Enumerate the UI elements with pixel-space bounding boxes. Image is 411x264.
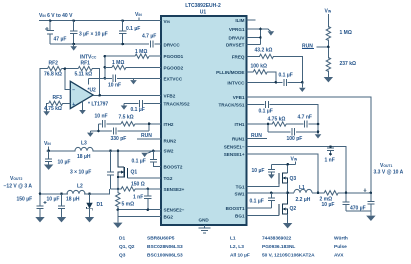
wire SW2 rail xyxy=(47,150,162,152)
svg-text:DRVSET: DRVSET xyxy=(226,43,245,48)
IC U1 LTC3892EUH-2 body xyxy=(161,16,247,225)
capacitor 3x10uF input xyxy=(70,21,77,44)
svg-text:1 MΩ: 1 MΩ xyxy=(135,49,147,55)
svg-text:L1: L1 xyxy=(299,185,305,191)
svg-text:VPRG1: VPRG1 xyxy=(229,27,245,32)
capacitor 0.1uF TRACK/SS2 xyxy=(121,100,161,110)
svg-text:Q1, Q2: Q1, Q2 xyxy=(119,244,135,250)
svg-text:1 nF: 1 nF xyxy=(133,195,143,201)
svg-text:L1: L1 xyxy=(230,236,236,242)
transistor Q2 xyxy=(279,193,288,216)
svg-text:BOOST1: BOOST1 xyxy=(226,206,245,211)
svg-text:10 µF: 10 µF xyxy=(322,202,335,208)
svg-text:0.1 µF: 0.1 µF xyxy=(259,108,273,114)
wire BG2 to ground xyxy=(118,210,161,223)
ground VPRG1 (diagonal) xyxy=(268,29,275,36)
wire VOUT2 rail xyxy=(40,189,110,194)
svg-text:Q3: Q3 xyxy=(119,253,126,259)
capacitor 4.7uF DRVCC xyxy=(151,40,154,47)
svg-text:10 nF: 10 nF xyxy=(95,113,108,119)
wire Q3 source xyxy=(287,183,289,193)
svg-text:RUN2: RUN2 xyxy=(164,138,177,143)
capacitor 0.1uF INTVCC xyxy=(284,79,287,86)
svg-text:150 Ω: 150 Ω xyxy=(131,181,145,187)
svg-text:237 kΩ: 237 kΩ xyxy=(340,61,357,67)
svg-text:AVX: AVX xyxy=(334,253,344,259)
wire SENSE1+ line xyxy=(247,154,319,193)
ground SW2 node (diagonal) xyxy=(141,151,153,157)
svg-text:DRVCC: DRVCC xyxy=(164,42,181,47)
svg-text:Würth: Würth xyxy=(334,236,348,242)
svg-text:1 MΩ: 1 MΩ xyxy=(340,30,352,36)
wire SENSE1- line xyxy=(247,147,347,193)
wire SW1 rail to VOUT xyxy=(247,192,371,194)
svg-text:5.11 kΩ: 5.11 kΩ xyxy=(75,72,93,78)
ground input caps xyxy=(70,44,77,51)
svg-text:47 µF: 47 µF xyxy=(54,37,67,43)
IC pin labels right xyxy=(216,18,245,218)
wire VFB1 to VOUT1 xyxy=(247,97,371,193)
IC U1 title xyxy=(185,3,221,16)
svg-text:PGOOD1: PGOOD1 xyxy=(164,54,184,59)
wire Q1 source down xyxy=(117,177,119,189)
wire inverting input node xyxy=(62,69,79,90)
wire TG2 gate xyxy=(128,177,162,179)
svg-text:* LT1797: * LT1797 xyxy=(88,102,108,108)
capacitor 0.1uF BOOST2 xyxy=(150,151,161,167)
wire RUN1 xyxy=(247,138,267,140)
capacitor 10uF Vin ch2 xyxy=(44,151,53,170)
svg-text:VIN: VIN xyxy=(325,9,332,15)
svg-text:4.7 µF: 4.7 µF xyxy=(142,34,156,40)
svg-text:3 × 10 µF: 3 × 10 µF xyxy=(70,170,91,176)
wire TG1 gate xyxy=(247,184,280,187)
node Vin tap near IC xyxy=(135,12,142,21)
capacitor 10nF ITH2 xyxy=(103,120,106,127)
ground under IC GND pin xyxy=(199,225,211,233)
wire INTVCC line xyxy=(247,81,303,83)
svg-text:−: − xyxy=(72,88,75,94)
inductor L1 2.2uH xyxy=(294,189,312,192)
wire ITH1 node xyxy=(247,124,319,134)
svg-text:3 µF × 10 µF: 3 µF × 10 µF xyxy=(79,32,108,38)
svg-text:ILIM: ILIM xyxy=(235,18,244,23)
capacitor 47uF (polarized) xyxy=(45,21,54,44)
capacitor 330pF ITH2 xyxy=(113,127,116,134)
wire BOOST1 xyxy=(247,207,272,209)
svg-text:10 µF: 10 µF xyxy=(58,160,71,166)
wire U2 supply drop xyxy=(88,78,90,84)
svg-text:0.1 µF: 0.1 µF xyxy=(132,159,146,165)
svg-text:PLLIN/MODE: PLLIN/MODE xyxy=(216,70,244,75)
capacitor 150uF VOUT2 (polarized) xyxy=(35,194,46,223)
svg-text:7.5 kΩ: 7.5 kΩ xyxy=(119,115,134,121)
resistor 237k RUN divider xyxy=(326,58,330,78)
svg-text:−12 V @ 3 A: −12 V @ 3 A xyxy=(4,184,33,190)
svg-text:VIN: VIN xyxy=(44,141,51,147)
diode D1 xyxy=(86,194,92,217)
inductor L2 18uH xyxy=(67,190,85,193)
IC pin labels left xyxy=(164,19,210,222)
svg-text:D1: D1 xyxy=(119,236,125,242)
wire SENSE2- line xyxy=(118,209,161,211)
svg-text:10 µF: 10 µF xyxy=(252,168,265,174)
svg-text:0.1 µF: 0.1 µF xyxy=(250,198,264,204)
svg-text:BSC028N06LS3: BSC028N06LS3 xyxy=(147,244,183,250)
wire VOUT1 ground rail xyxy=(346,210,371,212)
svg-text:L2: L2 xyxy=(77,183,83,189)
svg-text:1 MΩ: 1 MΩ xyxy=(112,60,124,66)
svg-text:BG2: BG2 xyxy=(164,214,174,219)
svg-text:*U2: *U2 xyxy=(88,87,97,93)
svg-text:DRVUV: DRVUV xyxy=(229,36,246,41)
svg-text:18 µH: 18 µH xyxy=(77,154,91,160)
svg-text:PGOOD2: PGOOD2 xyxy=(164,65,184,70)
svg-text:GND: GND xyxy=(199,217,210,222)
capacitor 10nF EXTVCC xyxy=(113,75,116,82)
resistor 4.75k ITH1 xyxy=(272,122,286,126)
svg-text:BSC100N06LS3: BSC100N06LS3 xyxy=(147,253,183,259)
wire EXTVCC line xyxy=(89,77,161,79)
svg-text:ITH1: ITH1 xyxy=(235,122,245,127)
svg-text:VFB2: VFB2 xyxy=(164,93,176,98)
svg-text:RUN: RUN xyxy=(141,133,152,139)
svg-text:INTVCC: INTVCC xyxy=(227,80,245,85)
capacitor 1nF sense ch2 xyxy=(144,189,151,210)
inductor L3 18uH xyxy=(75,147,93,150)
svg-text:2.2 µH: 2.2 µH xyxy=(296,197,311,203)
capacitor 10uF VOUT2 xyxy=(57,194,66,223)
ground INTVCC xyxy=(299,82,306,92)
svg-text:100 kΩ: 100 kΩ xyxy=(251,63,268,69)
op-amp U2 LT1797 xyxy=(70,81,93,108)
svg-text:VOUT2: VOUT2 xyxy=(10,176,23,182)
svg-text:RUN1: RUN1 xyxy=(232,137,245,142)
capacitor 470uF VOUT1 (polarized) xyxy=(363,189,374,211)
svg-text:4.75 kΩ: 4.75 kΩ xyxy=(44,106,62,112)
resistor 100k PLLIN/MODE xyxy=(247,70,276,83)
capacitor 10uF VOUT1 xyxy=(342,193,349,211)
resistor RF2 76.8k xyxy=(48,66,62,70)
svg-text:BOOST2: BOOST2 xyxy=(164,164,183,169)
svg-text:43.2 kΩ: 43.2 kΩ xyxy=(255,48,273,54)
wire ITH2 node xyxy=(90,124,161,131)
svg-text:0.1 µF: 0.1 µF xyxy=(126,26,140,32)
svg-text:LTC3892EUH-2: LTC3892EUH-2 xyxy=(185,3,221,9)
svg-text:150 µF: 150 µF xyxy=(17,196,33,202)
wire ground rail / DRVCC line xyxy=(50,43,161,45)
resistor 1M PGOOD1 xyxy=(105,54,161,58)
wire SENSE2+ line xyxy=(111,188,162,190)
svg-text:RF1: RF1 xyxy=(81,60,91,66)
capacitor 4.7nF ITH1 xyxy=(305,120,308,127)
ground RUN divider xyxy=(324,77,333,82)
svg-text:SENSE1+: SENSE1+ xyxy=(224,152,245,157)
svg-text:+: + xyxy=(72,102,75,108)
capacitor 10uF ch1 input xyxy=(268,164,275,178)
resistor 1M PGOOD2 xyxy=(105,65,161,69)
ground EXTVCC xyxy=(130,78,137,84)
svg-text:TG1: TG1 xyxy=(236,185,245,190)
svg-text:All 10 µF: All 10 µF xyxy=(230,253,250,259)
svg-text:Q1: Q1 xyxy=(131,169,138,175)
ground op-amp xyxy=(79,101,86,114)
svg-text:74438369022: 74438369022 xyxy=(262,236,292,242)
capacitor 100pF ITH1 xyxy=(292,128,295,135)
svg-text:TG2: TG2 xyxy=(164,176,173,181)
svg-text:SW2: SW2 xyxy=(164,148,174,153)
svg-text:50 V, 12105C106KAT2A: 50 V, 12105C106KAT2A xyxy=(262,253,315,259)
svg-text:10 µF: 10 µF xyxy=(47,196,60,202)
svg-text:1 nF: 1 nF xyxy=(325,158,335,164)
wire ILIM stub xyxy=(247,19,256,21)
wire RF2 left to VOUT2 rail xyxy=(40,69,48,194)
wire Q3 drain line xyxy=(271,164,295,173)
svg-text:3.3 V @ 10 A: 3.3 V @ 10 A xyxy=(374,169,404,175)
svg-text:SENSE2+: SENSE2+ xyxy=(164,187,185,192)
svg-text:RF3: RF3 xyxy=(53,95,63,101)
wire VPRG1/DRVUV/DRVSET tie xyxy=(247,29,268,45)
wire RUN2 xyxy=(137,138,161,140)
svg-text:VIN 6 V to 40 V: VIN 6 V to 40 V xyxy=(39,13,73,19)
resistor RF1 5.11k xyxy=(78,66,92,70)
svg-text:4.7 nF: 4.7 nF xyxy=(298,115,312,121)
wire Vin rail top xyxy=(39,20,161,22)
ground ITH1 network xyxy=(315,134,322,138)
wire op-amp output to VFB2 xyxy=(93,94,161,96)
svg-text:0.1 µF: 0.1 µF xyxy=(131,107,145,113)
ground RF3 xyxy=(43,111,50,115)
svg-text:BG1: BG1 xyxy=(235,213,245,218)
resistor 150 ohm SENSE2+ xyxy=(121,187,135,191)
capacitor 1nF sense ch1 xyxy=(327,147,334,154)
resistor 5 mOhm sense ch2 xyxy=(116,189,120,210)
svg-text:L3: L3 xyxy=(81,141,87,147)
transistor Q3 xyxy=(279,173,288,185)
ground D1 xyxy=(85,217,94,222)
svg-text:SENSE1−: SENSE1− xyxy=(224,145,245,150)
ground ITH2 network xyxy=(87,131,94,137)
svg-text:TRACK/SS2: TRACK/SS2 xyxy=(164,102,190,107)
svg-text:L2, L3: L2, L3 xyxy=(230,244,244,250)
svg-text:EXTVCC: EXTVCC xyxy=(164,76,183,81)
capacitor 3x10uF coupling xyxy=(107,151,114,189)
svg-text:SENSE2−: SENSE2− xyxy=(164,208,185,213)
svg-text:SBR8U60P5: SBR8U60P5 xyxy=(147,236,175,242)
svg-text:D1: D1 xyxy=(97,202,104,208)
svg-text:18 µH: 18 µH xyxy=(66,196,80,202)
resistor RF3 4.75k xyxy=(47,101,71,111)
svg-text:U1: U1 xyxy=(200,10,207,16)
svg-text:VIN: VIN xyxy=(164,19,171,24)
svg-text:10 nF: 10 nF xyxy=(108,83,121,89)
svg-text:VFB1: VFB1 xyxy=(233,95,245,100)
wire INTVCC vertical xyxy=(104,56,106,78)
capacitor 0.1uF TRACK/SS1 xyxy=(247,101,319,124)
svg-text:Q3: Q3 xyxy=(290,176,297,182)
resistor 7.5k ITH2 xyxy=(121,122,135,126)
capacitor 0.1uF input xyxy=(119,21,126,44)
junction dots Vin rail xyxy=(49,19,124,22)
svg-text:Pulse: Pulse xyxy=(334,244,347,250)
svg-text:RF2: RF2 xyxy=(49,60,59,66)
svg-text:SW1: SW1 xyxy=(235,192,245,197)
svg-text:VOUT1: VOUT1 xyxy=(380,163,393,169)
transistor Q1 xyxy=(118,151,128,178)
resistor 43.2k FREQ xyxy=(247,54,303,82)
svg-text:330 pF: 330 pF xyxy=(111,136,127,142)
capacitor 0.1uF BOOST1 xyxy=(268,193,275,208)
resistor 1M RUN divider xyxy=(326,27,330,59)
svg-text:4.75 kΩ: 4.75 kΩ xyxy=(268,116,286,122)
svg-text:VIN: VIN xyxy=(291,157,298,163)
svg-text:100 pF: 100 pF xyxy=(287,136,303,142)
svg-text:TRACK/SS1: TRACK/SS1 xyxy=(218,103,244,108)
svg-text:76.8 kΩ: 76.8 kΩ xyxy=(44,72,62,78)
svg-text:ITH2: ITH2 xyxy=(164,122,174,127)
svg-text:VIN: VIN xyxy=(135,12,142,18)
svg-text:PG0936.183NL: PG0936.183NL xyxy=(262,244,295,250)
resistor 2 mOhm sense ch1 xyxy=(324,191,338,195)
svg-text:0.1 µF: 0.1 µF xyxy=(279,73,293,79)
ground Q2 source xyxy=(283,214,292,228)
svg-text:FREQ: FREQ xyxy=(232,54,245,59)
wire BG1 gate xyxy=(247,214,280,216)
svg-text:Q2: Q2 xyxy=(290,206,297,212)
wire RF1 feedback to output xyxy=(92,69,100,96)
svg-text:RUN: RUN xyxy=(251,133,262,139)
svg-text:5 mΩ: 5 mΩ xyxy=(122,202,135,208)
